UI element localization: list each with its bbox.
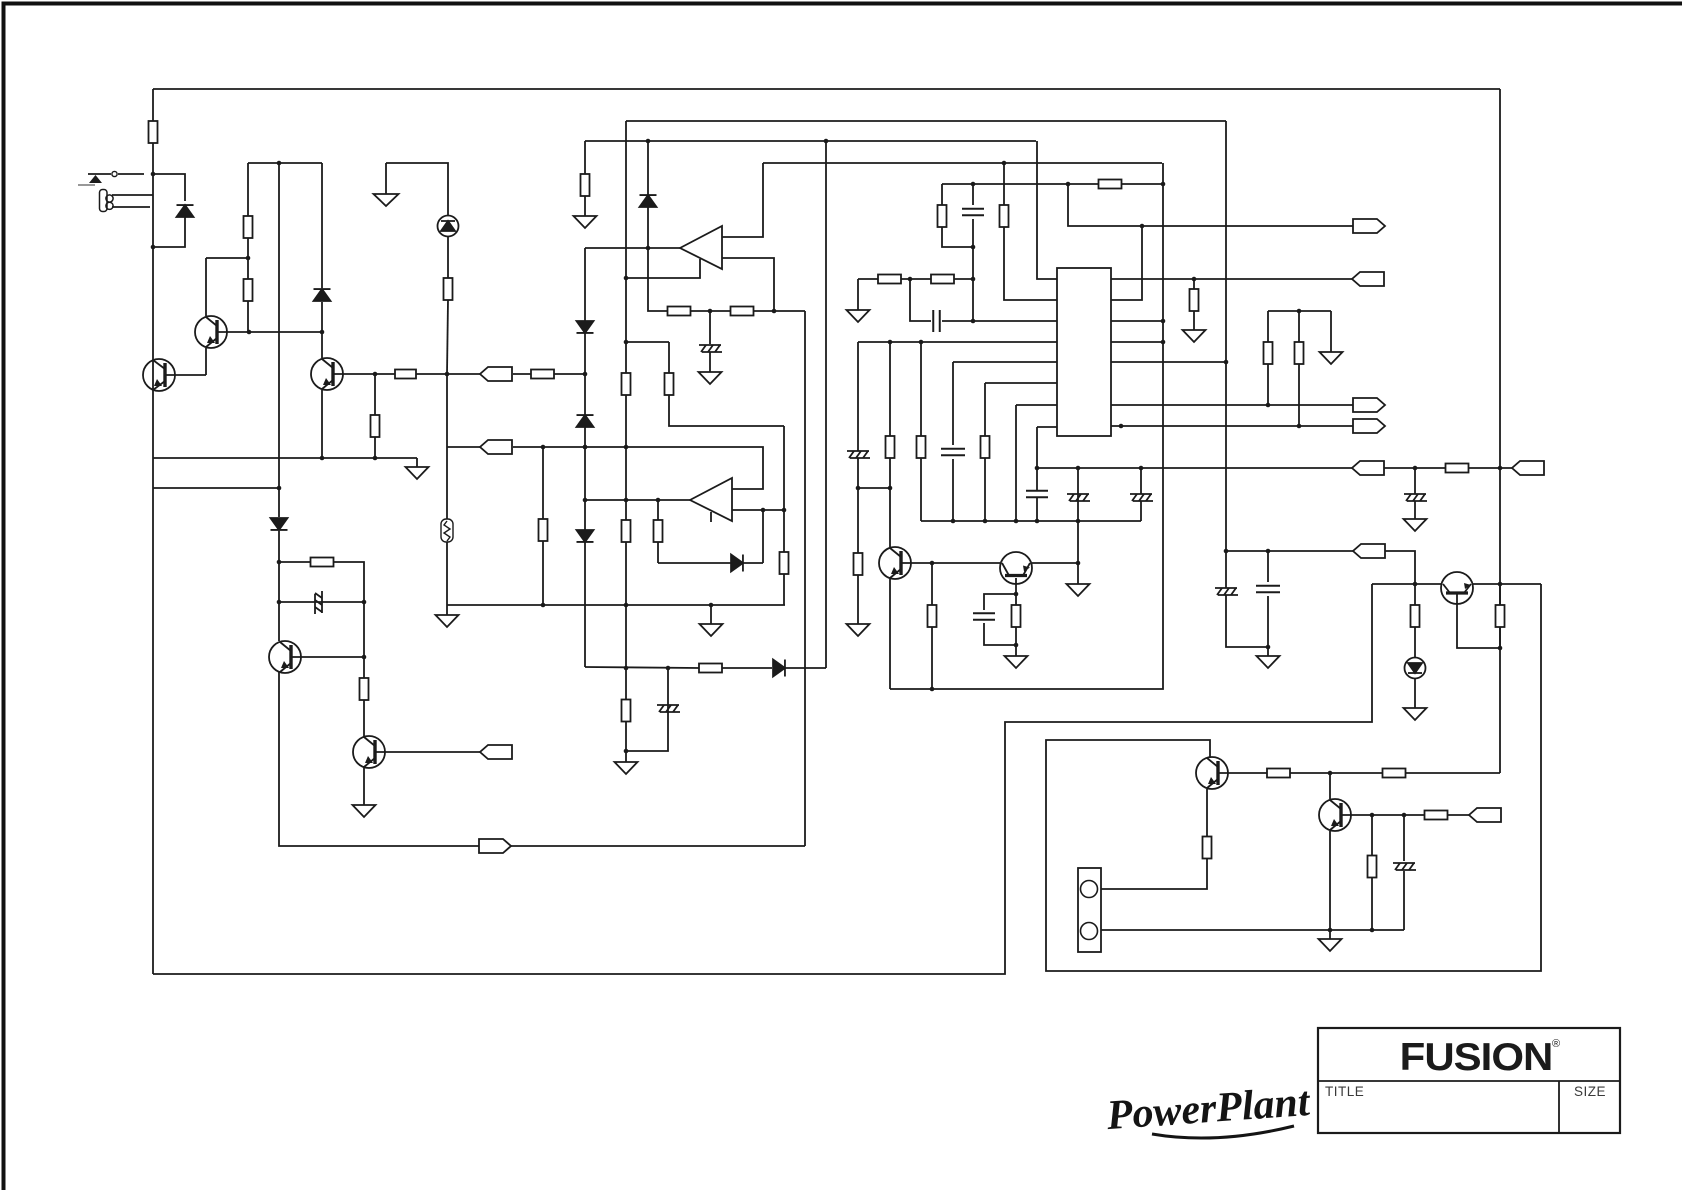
wire G10 stub: [857, 279, 859, 310]
capacitor C4: [962, 209, 984, 216]
wire R11 line: [279, 561, 311, 563]
wire T2 collector: [206, 258, 248, 279]
wire R18 top: [931, 563, 933, 605]
junction Q7 base: [1014, 592, 1019, 597]
wire x668 elbow: [626, 748, 668, 751]
wire G6 stub: [709, 352, 711, 372]
resistor R16: [780, 552, 789, 574]
wire R21 bottom: [984, 458, 986, 521]
logo PowerPlant underline: [1152, 1126, 1294, 1138]
wire pin y426 left: [1037, 426, 1057, 428]
LED D10: [438, 216, 459, 237]
wire R17 bottom: [889, 458, 891, 547]
wire R39 bottom: [1267, 364, 1269, 405]
junction y551: [1266, 549, 1271, 554]
junction y184 c: [1161, 182, 1166, 187]
resistor R18: [928, 605, 937, 627]
resistor R36: [1411, 605, 1420, 627]
wire y184 rail: [942, 183, 1099, 185]
resistor R19: [1012, 605, 1021, 627]
wire RB top: [668, 342, 670, 373]
wire x910 col: [910, 279, 931, 321]
junction out2 a: [761, 508, 766, 513]
diode D9: [731, 555, 743, 572]
wire x626 col4: [625, 395, 627, 500]
junction Q8 e: [1498, 646, 1503, 651]
wire x1415 col2: [1414, 501, 1416, 519]
wire pin y279 left: [1037, 141, 1057, 279]
junction chain a: [708, 309, 713, 314]
resistor R29: [1190, 289, 1199, 311]
ground G7: [1005, 656, 1028, 668]
chassis ground H1: [699, 345, 722, 352]
junction y447 c: [624, 445, 629, 450]
wire Q8 right: [1473, 583, 1541, 585]
thermistor RT1: [441, 519, 453, 542]
junction Q6 base: [930, 561, 935, 566]
wire opamp1 top input: [722, 163, 763, 237]
junction x1226 b: [1224, 549, 1229, 554]
wire flag374 to R37: [513, 373, 531, 375]
wire y468 net3: [1468, 467, 1512, 469]
wire Q7 right: [1032, 562, 1078, 564]
ground G18: [1320, 352, 1343, 364]
title block size divider: [1558, 1081, 1560, 1133]
ground G15: [700, 624, 723, 636]
wire opamp2 stub: [710, 512, 712, 522]
wire G7 stub: [1015, 645, 1017, 656]
wire Q5 emitter: [363, 766, 365, 805]
wire R40 top: [1298, 311, 1300, 342]
wire G2 stub: [446, 605, 448, 615]
wire opamp1 fb: [626, 259, 700, 278]
junction Q8 base: [1413, 582, 1418, 587]
junction rail342 b: [919, 340, 924, 345]
junction y447 a: [541, 445, 546, 450]
junction x585 b: [583, 445, 588, 450]
wire pin y405 right: [1111, 404, 1353, 406]
wire Q10 base line2: [1448, 814, 1469, 816]
wire R4 right: [416, 373, 447, 375]
wire switch contact: [88, 173, 111, 175]
junction in2 c: [656, 498, 661, 503]
chassis ground H4: [847, 451, 870, 458]
diode D4: [640, 195, 657, 207]
transistor Q8: [1441, 572, 1473, 604]
flag PWR_SW: [480, 745, 512, 759]
junction switch node: [151, 172, 156, 177]
junction x626 gnd: [624, 749, 629, 754]
wire Q8 base line: [1372, 583, 1441, 585]
ground G9: [847, 624, 870, 636]
junction bottom net: [1370, 928, 1375, 933]
wire D4 col: [647, 141, 649, 195]
junction y405: [1266, 403, 1271, 408]
wire x626 col2: [625, 278, 627, 342]
wire sense column: [446, 374, 448, 605]
wire Q3 emitter lead: [321, 390, 323, 458]
resistor R30: [1383, 769, 1406, 778]
junction R4 node: [445, 372, 450, 377]
wire C6 top: [1267, 551, 1269, 582]
junction Q3 base node: [373, 372, 378, 377]
wire bias rail: [248, 162, 322, 164]
wire y184 rail2: [1121, 183, 1163, 185]
junction chain q8: [1328, 771, 1333, 776]
wire R29 top: [1193, 279, 1195, 289]
flag VIN_SENSE: [480, 367, 512, 381]
ground G4: [615, 762, 638, 774]
wire rail y121: [626, 120, 1226, 122]
wire G15 stub: [710, 605, 712, 624]
wire flag551 link: [1385, 551, 1415, 584]
junction y163: [1002, 161, 1007, 166]
flag VREF: [1352, 272, 1384, 286]
wire y668 line3: [785, 667, 826, 669]
wire R26 bottom: [942, 227, 973, 247]
wire R19 top: [1015, 594, 1017, 605]
junction x1194: [1192, 277, 1197, 282]
IC U3: [1057, 268, 1111, 436]
junction D1 return: [151, 245, 156, 250]
resistor R15: [654, 520, 663, 542]
junction y226: [1140, 224, 1145, 229]
junction x858: [856, 486, 861, 491]
junction bus b: [983, 519, 988, 524]
junction y605 c: [709, 603, 714, 608]
capacitor C2: [941, 449, 965, 456]
junction x626 rail: [624, 340, 629, 345]
wire y668 line2: [722, 667, 772, 669]
flag CTRL: [1353, 219, 1385, 233]
wire x1016 col: [1015, 405, 1017, 521]
wire pin y300 left: [1003, 163, 1005, 205]
resistor R38: [665, 373, 674, 395]
wire G4 stub: [625, 751, 627, 762]
wire D1 return: [153, 217, 185, 247]
resistor R10: [581, 174, 590, 196]
resistor R7: [622, 373, 631, 395]
ground G12: [1257, 656, 1280, 668]
wire C5 right: [942, 320, 973, 322]
junction y605 b: [624, 603, 629, 608]
junction chain c: [772, 309, 777, 314]
wire R5 top: [374, 374, 376, 415]
junction y468 c: [1413, 466, 1418, 471]
wire y226 net: [1068, 184, 1353, 226]
junction Q10 base a: [1370, 813, 1375, 818]
flag OUT_A: [1353, 398, 1385, 412]
resistor R5: [371, 415, 380, 437]
wire opamp2 out: [732, 509, 784, 511]
junction R19 gnd: [1014, 643, 1019, 648]
wire chain2: [690, 310, 731, 312]
junction y468 a: [1076, 466, 1081, 471]
wire Q5 base line: [374, 751, 480, 753]
diode D7: [577, 530, 594, 542]
resistor R17: [886, 436, 895, 458]
wire D2 to node: [278, 531, 280, 641]
chassis ground H6: [1215, 588, 1238, 595]
wire R21 top: [984, 383, 986, 436]
wire opamp1 input line: [585, 247, 680, 249]
ground G6: [699, 372, 722, 384]
wire T2 emitter lead: [205, 348, 207, 375]
wire block box: [1046, 584, 1541, 971]
wire y468 net2: [1384, 467, 1446, 469]
wire R34 bottom: [1371, 878, 1373, 930]
resistor R1: [149, 121, 158, 143]
resistor R39: [1264, 342, 1273, 364]
wire main left rail: [152, 89, 154, 974]
wire crowbar feed: [153, 487, 279, 489]
wire R37 right: [554, 373, 585, 375]
wire chain3: [753, 310, 805, 312]
resistor R34: [1368, 856, 1377, 878]
LED D11: [1405, 658, 1426, 679]
wire R15 top: [657, 500, 659, 520]
wire x626 col6: [625, 542, 627, 668]
wire Q10 emitter: [1329, 831, 1331, 939]
wire x1037 col3: [1036, 497, 1038, 521]
junction bias rail: [277, 161, 282, 166]
resistor R37: [531, 370, 554, 379]
wire x1415 col: [1414, 468, 1416, 494]
wire main right rail: [1499, 89, 1501, 773]
wire divider gnd: [1330, 311, 1332, 352]
junction C4: [971, 245, 976, 250]
junction y426 b: [1297, 424, 1302, 429]
wire Q3 collector lead: [321, 332, 323, 358]
wire pin y362 left: [953, 361, 1057, 363]
junction Q4 base: [362, 655, 367, 660]
capacitor C5: [933, 310, 940, 332]
wire divider rail: [1268, 310, 1331, 312]
transistor Q3: [311, 358, 343, 390]
diode D1: [177, 205, 194, 217]
wire y163 run: [763, 162, 1162, 164]
wire x626 col3: [625, 342, 627, 373]
ground G1: [406, 467, 429, 479]
junction y279: [908, 277, 913, 282]
wire x805 column: [804, 311, 806, 846]
wire pin y383 left: [985, 382, 1057, 384]
junction y184 a: [971, 182, 976, 187]
resistor R21: [981, 436, 990, 458]
junction x1226 a: [1224, 360, 1229, 365]
resistor R23: [1000, 205, 1009, 227]
connector J2 body: [1078, 868, 1101, 952]
transistor Q6: [879, 547, 911, 579]
junction x1163 b: [1161, 340, 1166, 345]
junction y141 a: [646, 139, 651, 144]
transistor Q2: [195, 316, 227, 348]
wire OUT_EN run: [511, 845, 805, 847]
wire rail342: [858, 341, 1057, 343]
wire R36 top: [1414, 584, 1416, 605]
svg-text:FUSION: FUSION: [1400, 1035, 1553, 1079]
wire flag374 line: [447, 373, 480, 375]
chassis ground H5: [1130, 494, 1153, 501]
flag OUT_EN: [479, 839, 511, 853]
wire R5 bottom: [374, 437, 376, 458]
wire Q8 emitter: [1457, 593, 1500, 648]
wire R20 bottom: [920, 458, 922, 521]
wire x784 col: [783, 426, 785, 552]
wire R2 top: [247, 163, 249, 216]
svg-text:TITLE: TITLE: [1325, 1084, 1364, 1099]
wire hatch line: [279, 601, 364, 603]
junction crowbar feed: [277, 486, 282, 491]
wire R34 top: [1371, 815, 1373, 855]
junction Q2 base: [320, 330, 325, 335]
wire R4 left: [375, 373, 395, 375]
wire rail342s: [626, 341, 669, 343]
junction out2 b: [782, 508, 787, 513]
wire x626 column: [625, 121, 627, 278]
ground G14: [1404, 708, 1427, 720]
wire x858 col2: [857, 458, 859, 488]
wire RB bottom: [669, 395, 784, 426]
wire x1141 col2: [1140, 501, 1142, 521]
junction T2 collector node: [246, 256, 251, 261]
diode D8: [773, 660, 785, 677]
wire pin y405 left: [1016, 404, 1057, 406]
wire x1078 col: [1077, 468, 1079, 563]
wire G3 stub: [385, 163, 387, 194]
wire opamp2 input: [585, 499, 690, 501]
wire y447 run: [513, 447, 763, 489]
resistor R25: [1099, 180, 1122, 189]
wire J1 pin2: [112, 206, 150, 208]
resistor R33: [1425, 811, 1448, 820]
junction fb: [624, 276, 629, 281]
connector J1 coil upper: [106, 195, 113, 202]
wire crowbar column: [278, 163, 280, 488]
wire x626 col7: [625, 668, 627, 699]
wire R14 top: [542, 447, 544, 519]
wire R15 bottom: [657, 542, 659, 563]
ground G5: [574, 216, 597, 228]
wire T2 collector lead: [205, 258, 207, 316]
junction y668 a: [624, 666, 629, 671]
resistor R28: [931, 275, 954, 284]
connector J1 body: [100, 190, 108, 212]
junction y447 b: [583, 445, 588, 450]
junction divider: [1297, 309, 1302, 314]
flag SENSE: [1469, 808, 1501, 822]
transistor Q10: [1319, 799, 1351, 831]
junction bus d: [1035, 519, 1040, 524]
wire C6 bottom: [1267, 596, 1269, 647]
ground G2: [436, 615, 459, 627]
wire x1226 col2: [1225, 551, 1227, 588]
wire pin y321 right: [1111, 320, 1163, 322]
wire cap branch2: [984, 623, 1016, 645]
wire Q9 emitter2: [1099, 859, 1207, 889]
junction y468 d: [1498, 466, 1503, 471]
wire bus520: [921, 520, 1141, 522]
switch S1 actuator lead: [78, 184, 95, 186]
resistor R35: [1203, 837, 1212, 859]
wire D3 top: [321, 163, 323, 288]
junction hatch node R: [362, 600, 367, 605]
transistor Q4: [269, 641, 301, 673]
wire Q9 base line: [1217, 772, 1267, 774]
junction bus c: [1014, 519, 1019, 524]
wire pin y426 right: [1111, 425, 1353, 427]
resistor R27: [878, 275, 901, 284]
wire flag447 line: [447, 446, 480, 448]
op-amp U1: [680, 226, 722, 269]
wire pin y362 right: [1111, 361, 1226, 363]
junction in2 a: [583, 498, 588, 503]
wire pin y279 right: [1111, 278, 1352, 280]
junction opamp1 in: [646, 246, 651, 251]
flag VCC_S: [1353, 544, 1385, 558]
transistor Q9: [1196, 757, 1228, 789]
wire x626 col8: [625, 722, 627, 751]
junction hatch node L: [277, 600, 282, 605]
flag OUT_B: [1353, 419, 1385, 433]
op-amp U2: [690, 478, 732, 521]
wire x1037 col2: [1036, 468, 1038, 491]
junction y668 b: [666, 666, 671, 671]
wire opamp1 bot input: [722, 258, 774, 311]
wire y279 b: [901, 278, 931, 280]
svg-text:SIZE: SIZE: [1574, 1084, 1606, 1099]
wire Q10 collector: [1329, 773, 1331, 799]
diode D2: [271, 518, 288, 530]
wire main box top rail V+: [153, 88, 1500, 90]
junction y426 a: [1119, 424, 1124, 429]
wire x1226 col: [1225, 121, 1227, 551]
resistor R8: [622, 520, 631, 542]
resistor R13: [699, 664, 722, 673]
wire x858 col4: [857, 575, 859, 624]
wire x858 col3: [857, 488, 859, 554]
connector J2 pin2: [1081, 923, 1098, 940]
ground G13: [1319, 939, 1342, 951]
switch S1 contact circle: [112, 171, 117, 176]
wire x364 col: [363, 602, 365, 678]
diode D6: [577, 415, 594, 427]
wire pin y300 right: [1111, 226, 1142, 300]
ground G16: [353, 805, 376, 817]
wire R18 bottom: [931, 627, 933, 689]
wire base chain2: [1406, 772, 1500, 774]
junction x973 b: [971, 319, 976, 324]
wire pin y321 left: [973, 320, 1057, 322]
wire D3 bottom: [321, 302, 323, 332]
wire Q10 base line: [1340, 814, 1424, 816]
wire cap branch: [984, 594, 1016, 610]
wire pin y342 right: [1111, 341, 1163, 343]
wire R41 top: [1499, 584, 1501, 605]
wire Q7 base lead: [1015, 578, 1017, 594]
wire Q4 emitter run: [279, 672, 479, 846]
junction rail342 a: [888, 340, 893, 345]
junction y141 b: [824, 139, 829, 144]
wire fb col: [762, 510, 764, 563]
junction Q10 e: [1328, 928, 1333, 933]
flag VOUT: [1352, 461, 1384, 475]
wire pin y300 left2: [1004, 227, 1057, 300]
wire R11 right: [333, 562, 364, 602]
wire y551 net: [1226, 550, 1353, 552]
resistor R8a: [360, 678, 369, 700]
junction Q3 emitter: [320, 456, 325, 461]
